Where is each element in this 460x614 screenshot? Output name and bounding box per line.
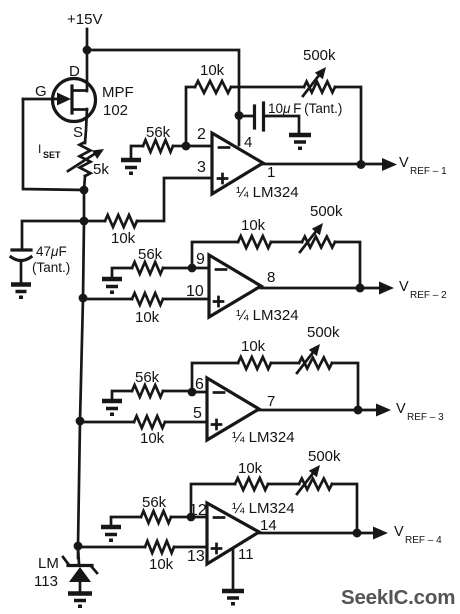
node pin2 junction (182, 142, 191, 151)
svg-text:D: D (69, 63, 80, 80)
ground for pin11 (222, 591, 244, 606)
op-amp U1C plus (212, 420, 221, 429)
wire fb3 right drop (332, 363, 358, 410)
svg-text:V: V (396, 401, 406, 417)
resistor R1 5k arrow (68, 153, 96, 171)
resistor R14 10k feedback stage4 (235, 478, 268, 490)
resistor R2 10k feedback stage1 (195, 81, 231, 93)
wire top rail to pin 4 (87, 50, 239, 145)
svg-text:14: 14 (260, 517, 277, 534)
ground for C2 (289, 135, 311, 150)
svg-text:56k: 56k (138, 246, 163, 263)
arrow output stage1 (382, 158, 397, 171)
svg-text:5k: 5k (93, 161, 109, 178)
ground for LM113 (68, 594, 92, 609)
op-amp U1D triangle (207, 503, 259, 564)
node pin9 junction (188, 264, 197, 273)
resistor R5 10k stage1 input (84, 220, 105, 223)
svg-text:47μF: 47μF (36, 244, 67, 259)
node cap junction (235, 111, 244, 120)
op-amp U1C minus (214, 391, 224, 394)
op-amp U1B triangle (209, 255, 261, 317)
svg-text:¼ LM324: ¼ LM324 (232, 500, 295, 517)
wire output stage4 (259, 532, 374, 535)
svg-text:S: S (73, 124, 83, 141)
wire pin2 input (186, 145, 212, 148)
node bus junction stage4 (74, 542, 83, 551)
svg-text:500k: 500k (303, 47, 336, 64)
svg-text:500k: 500k (308, 448, 341, 465)
svg-text:56k: 56k (142, 494, 167, 511)
node pin12 junction (187, 513, 196, 522)
resistor R13 10k stage3 input (80, 421, 134, 424)
svg-text:+15V: +15V (67, 11, 102, 28)
diode D1 LM113 zener (63, 546, 97, 592)
svg-text:SET: SET (43, 150, 61, 160)
resistor R12 56k stage3 (132, 385, 163, 397)
svg-text:4: 4 (244, 134, 252, 151)
wire feedback riser stage2 (192, 242, 238, 268)
svg-text:11: 11 (238, 546, 254, 563)
resistor R6 10k feedback stage2 (238, 236, 271, 248)
transistor Q1 gate arrow (23, 98, 58, 101)
transistor Q1 MPF102 JFET circle (53, 79, 96, 122)
wire pin12 input (191, 516, 207, 519)
wire pin6 input (192, 391, 207, 394)
svg-text:10k: 10k (200, 62, 225, 79)
wire feedback riser stage4 (191, 484, 235, 517)
node bus junction stage3 (76, 417, 85, 426)
node bus junction stage2 (79, 294, 88, 303)
resistor R17 10k stage4 input (78, 546, 145, 549)
wire 47uF branch (22, 221, 84, 249)
node gate-loop junction (80, 186, 89, 195)
wire fb1 right drop (335, 87, 361, 165)
ground for C1 (11, 285, 31, 300)
node bus junction stage1 (80, 217, 89, 226)
svg-text:10k: 10k (149, 556, 174, 573)
svg-text:G: G (35, 83, 47, 100)
wire output stage3 (259, 409, 377, 412)
potentiometer R7 500k stage2 (302, 237, 335, 248)
svg-text:10k: 10k (111, 230, 136, 247)
svg-text:7: 7 (267, 393, 275, 410)
op-amp U1C triangle (207, 378, 259, 440)
resistor R1 5k variable (80, 142, 91, 176)
op-amp U1A minus (219, 146, 229, 149)
svg-text:REF – 1: REF – 1 (410, 166, 447, 177)
svg-text:500k: 500k (310, 203, 343, 220)
op-amp U1A triangle (212, 133, 263, 194)
node pin6 junction (188, 388, 197, 397)
potentiometer R3 500k stage1 (304, 82, 335, 93)
svg-text:¼ LM324: ¼ LM324 (236, 307, 299, 324)
wire output stage2 (261, 287, 380, 290)
node output junction stage2 (356, 284, 365, 293)
transistor Q1 channel bar (70, 86, 73, 113)
ground for 56k stage4 (101, 527, 121, 542)
node output junction stage3 (354, 406, 363, 415)
svg-text:8: 8 (267, 269, 275, 286)
svg-text:102: 102 (103, 102, 128, 119)
op-amp U1D plus (212, 544, 221, 553)
wire 5k to junction (84, 176, 85, 190)
capacitor C1 47uF polarized (12, 248, 31, 251)
resistor R10 10k feedback stage3 (238, 357, 271, 369)
wire main bus (78, 190, 84, 558)
wire fb3 middle (271, 362, 299, 365)
svg-text:1: 1 (267, 164, 275, 181)
svg-text:REF – 3: REF – 3 (407, 412, 444, 423)
resistor R8 56k stage2 (132, 262, 163, 274)
ground for 56k stage2 (102, 279, 122, 294)
resistor R16 56k stage4 (141, 511, 171, 523)
arrow output stage3 (376, 404, 391, 417)
wire fb1 middle (231, 86, 304, 89)
svg-text:SeekIC.com: SeekIC.com (341, 586, 455, 609)
wire fb4 middle (268, 483, 299, 486)
svg-text:MPF: MPF (102, 84, 134, 101)
node output junction stage4 (353, 529, 362, 538)
svg-text:V: V (399, 279, 409, 295)
arrow output stage4 (373, 527, 388, 540)
svg-text:56k: 56k (146, 124, 171, 141)
svg-text:¼ LM324: ¼ LM324 (232, 429, 295, 446)
svg-text:2: 2 (197, 126, 206, 143)
svg-text:10k: 10k (241, 338, 266, 355)
svg-text:6: 6 (195, 376, 204, 393)
capacitor C2 10uF (239, 115, 253, 118)
svg-text:10k: 10k (140, 430, 165, 447)
svg-text:10μ F (Tant.): 10μ F (Tant.) (268, 101, 342, 116)
transistor Q1 source stub (72, 109, 87, 143)
op-amp U1D minus (214, 516, 224, 519)
node top-rail junction (83, 46, 92, 55)
arrow output stage2 (379, 282, 394, 295)
op-amp U1B plus (214, 297, 223, 306)
wire fb2 middle (271, 241, 302, 244)
node output junction stage1 (357, 160, 366, 169)
ground for 56k stage1 (121, 160, 141, 175)
wire output stage1 (263, 163, 383, 166)
svg-text:¼ LM324: ¼ LM324 (236, 184, 299, 201)
resistor R4 56k stage1 (143, 140, 173, 152)
svg-text:10k: 10k (241, 217, 266, 234)
wire pin11 ground stem (232, 549, 235, 589)
resistor R9 10k stage2 input (83, 298, 132, 301)
svg-text:V: V (399, 155, 409, 171)
wire fb2 right drop (335, 242, 360, 288)
transistor Q1 drain stub (72, 50, 87, 91)
svg-text:500k: 500k (307, 324, 340, 341)
svg-text:3: 3 (197, 159, 206, 176)
svg-text:LM: LM (38, 555, 59, 572)
svg-text:10k: 10k (238, 460, 263, 477)
wire fb4 right drop (332, 484, 357, 533)
ground for 56k stage3 (102, 401, 122, 416)
potentiometer R11 500k stage3 (299, 358, 332, 369)
svg-text:I: I (38, 142, 41, 156)
svg-text:13: 13 (187, 548, 205, 565)
wire feedback riser stage3 (192, 363, 238, 392)
svg-text:REF – 4: REF – 4 (405, 535, 442, 546)
svg-text:10: 10 (186, 283, 204, 300)
svg-text:V: V (394, 524, 404, 540)
svg-text:(Tant.): (Tant.) (32, 260, 70, 275)
svg-text:9: 9 (196, 251, 205, 268)
wire gate loop left side (23, 99, 84, 190)
svg-text:REF – 2: REF – 2 (410, 290, 447, 301)
wire feedback riser stage1 (186, 87, 195, 146)
wire +15V lead (86, 29, 89, 50)
potentiometer R15 500k stage4 (299, 479, 332, 490)
wire pin9 input (192, 267, 209, 270)
op-amp U1A plus (218, 174, 227, 183)
svg-text:10k: 10k (135, 309, 160, 326)
svg-text:113: 113 (34, 573, 58, 590)
op-amp U1B minus (216, 268, 226, 271)
svg-text:5: 5 (193, 405, 202, 422)
svg-text:56k: 56k (135, 369, 160, 386)
